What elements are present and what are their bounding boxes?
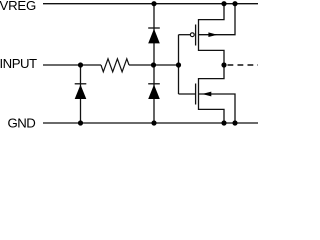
svg-text:VREG: VREG [0, 0, 36, 13]
svg-text:INPUT: INPUT [0, 56, 37, 71]
svg-text:GND: GND [8, 116, 36, 131]
